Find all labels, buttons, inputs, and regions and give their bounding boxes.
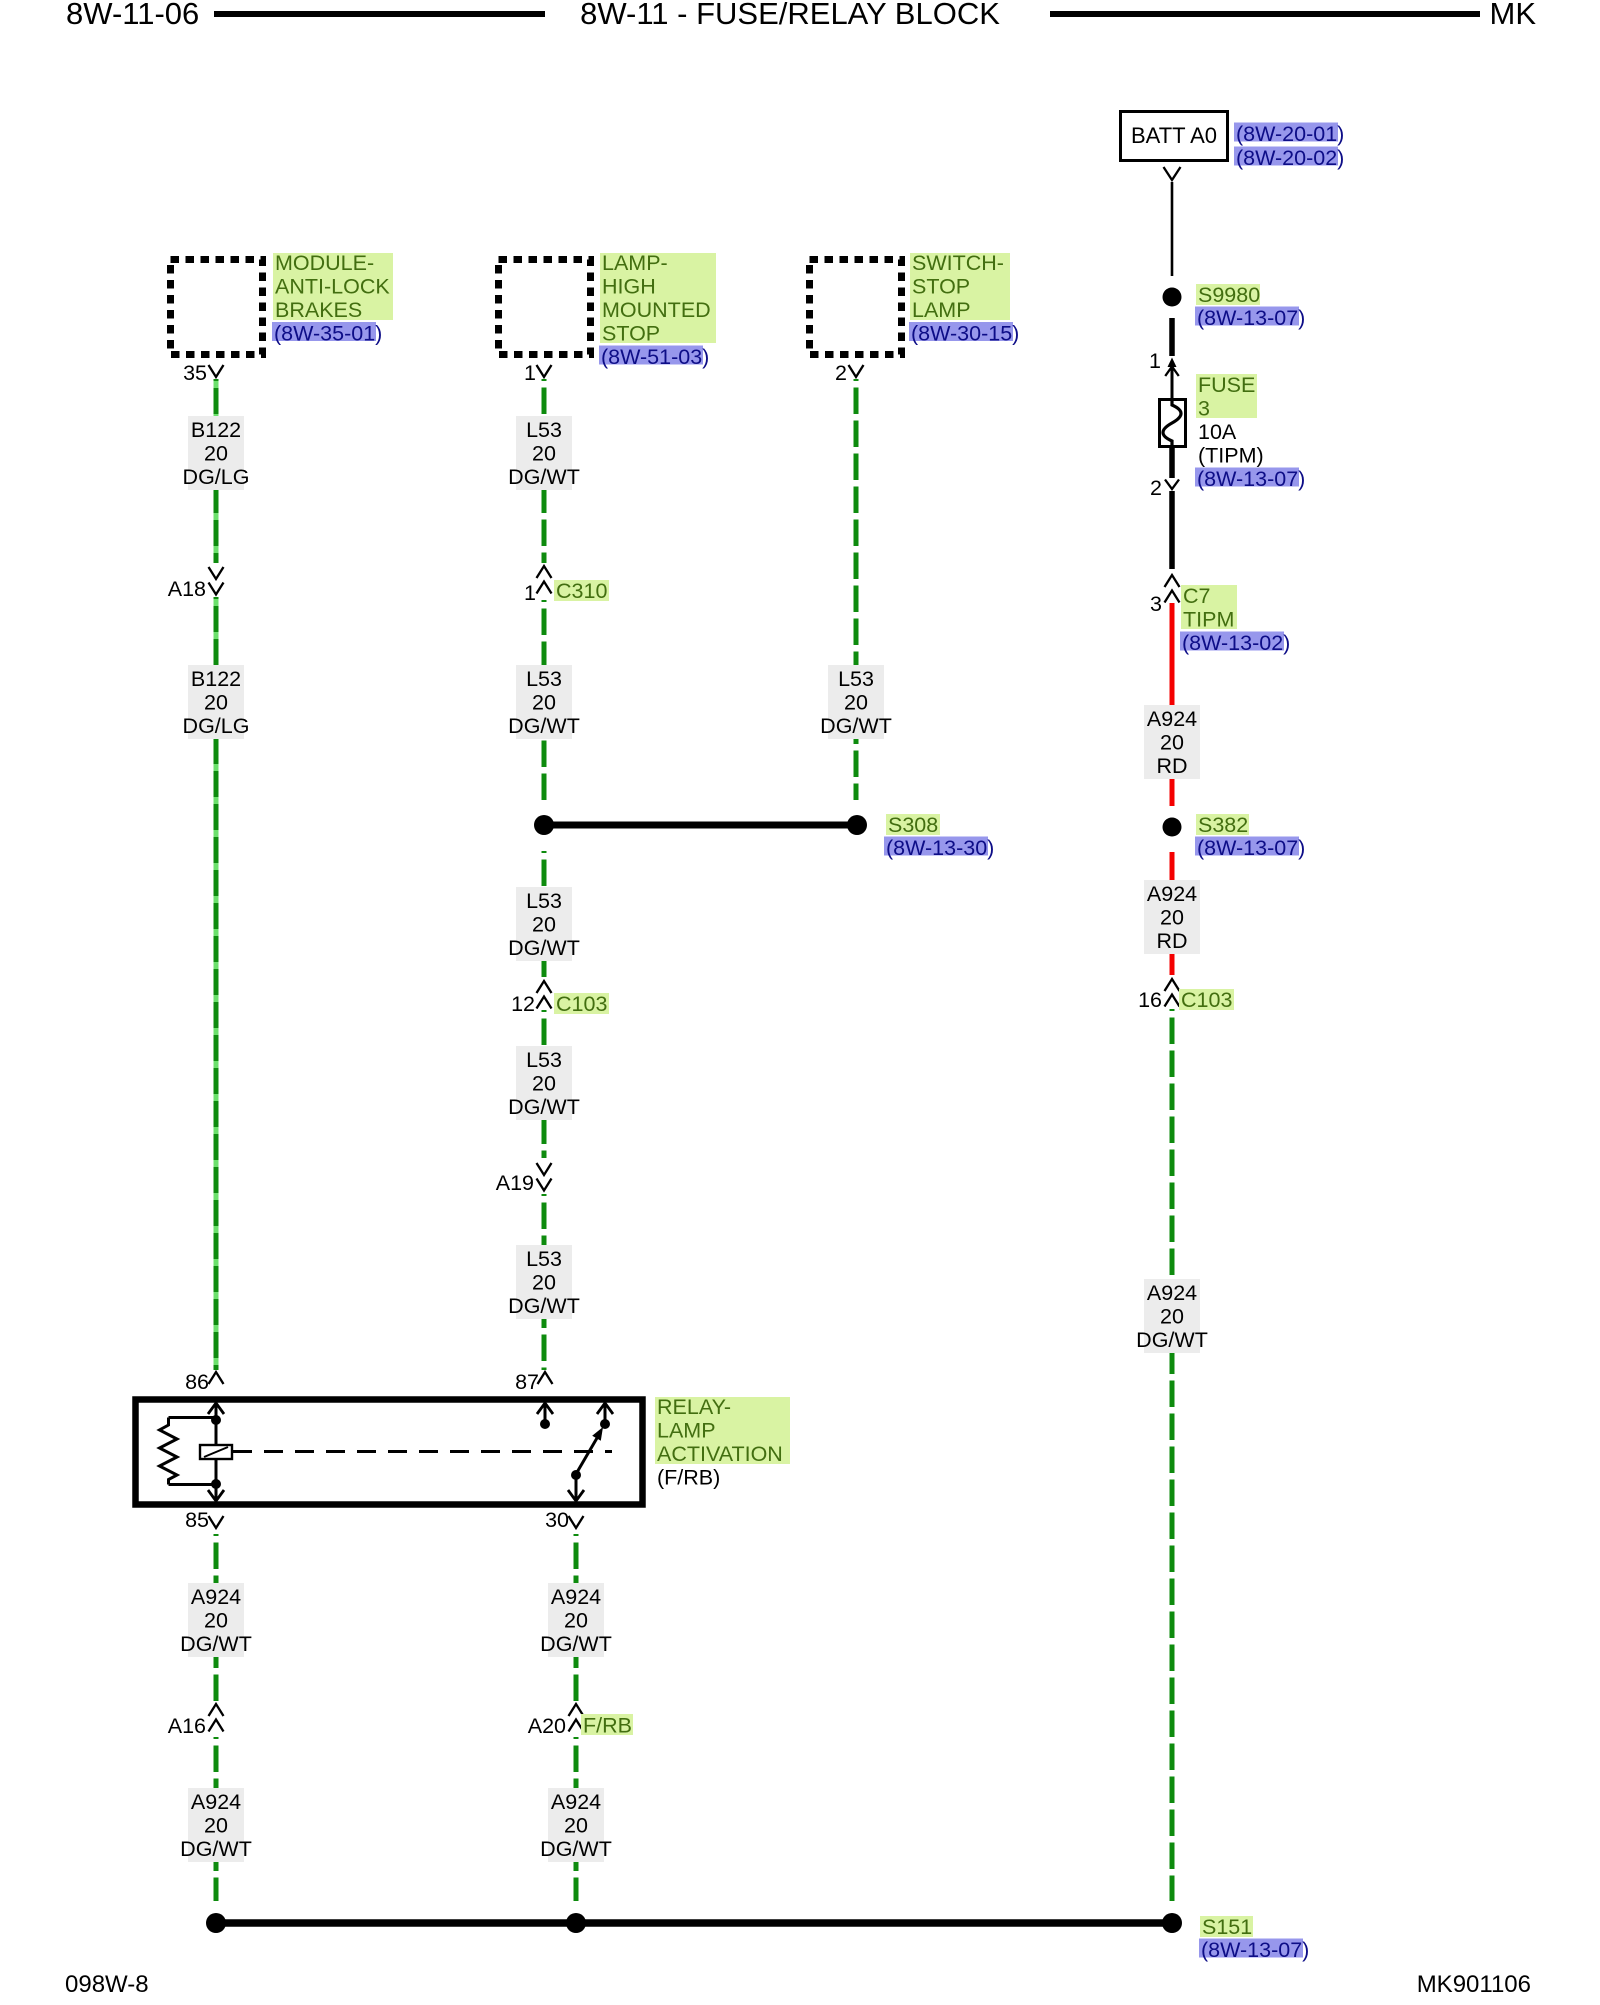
svg-text:A924: A924 bbox=[1147, 707, 1197, 731]
svg-text:30: 30 bbox=[545, 1508, 569, 1532]
svg-text:A924: A924 bbox=[551, 1585, 601, 1609]
svg-text:A924: A924 bbox=[1147, 882, 1197, 906]
svg-text:(8W-51-03): (8W-51-03) bbox=[601, 345, 709, 369]
svg-text:1: 1 bbox=[524, 361, 536, 385]
svg-text:MODULE-: MODULE- bbox=[275, 251, 374, 275]
svg-text:S151: S151 bbox=[1202, 1915, 1252, 1939]
svg-text:85: 85 bbox=[185, 1508, 209, 1532]
svg-text:S308: S308 bbox=[888, 813, 938, 837]
svg-text:20: 20 bbox=[1160, 1305, 1184, 1329]
svg-text:(8W-13-07): (8W-13-07) bbox=[1201, 1938, 1309, 1962]
svg-text:20: 20 bbox=[844, 691, 868, 715]
svg-text:SWITCH-: SWITCH- bbox=[912, 251, 1004, 275]
svg-text:DG/WT: DG/WT bbox=[820, 714, 892, 738]
svg-text:(8W-20-02): (8W-20-02) bbox=[1236, 146, 1344, 170]
svg-text:S9980: S9980 bbox=[1198, 283, 1260, 307]
svg-text:A924: A924 bbox=[191, 1585, 241, 1609]
svg-text:MOUNTED: MOUNTED bbox=[602, 298, 711, 322]
svg-text:BRAKES: BRAKES bbox=[275, 298, 362, 322]
svg-text:20: 20 bbox=[532, 442, 556, 466]
svg-text:RD: RD bbox=[1156, 929, 1187, 953]
svg-text:20: 20 bbox=[204, 1814, 228, 1838]
svg-text:A19: A19 bbox=[496, 1171, 534, 1195]
svg-text:(F/RB): (F/RB) bbox=[657, 1466, 720, 1490]
svg-text:L53: L53 bbox=[526, 667, 562, 691]
svg-text:20: 20 bbox=[532, 913, 556, 937]
svg-text:20: 20 bbox=[532, 1072, 556, 1096]
svg-text:12: 12 bbox=[511, 992, 535, 1016]
svg-text:20: 20 bbox=[564, 1814, 588, 1838]
svg-text:LAMP: LAMP bbox=[912, 298, 971, 322]
svg-text:L53: L53 bbox=[526, 1247, 562, 1271]
svg-text:A924: A924 bbox=[1147, 1281, 1197, 1305]
svg-text:F/RB: F/RB bbox=[583, 1714, 632, 1738]
svg-text:DG/WT: DG/WT bbox=[540, 1837, 612, 1861]
svg-text:BATT A0: BATT A0 bbox=[1131, 123, 1217, 148]
svg-text:C103: C103 bbox=[1181, 988, 1232, 1012]
svg-text:(TIPM): (TIPM) bbox=[1198, 444, 1264, 468]
svg-text:A924: A924 bbox=[551, 1790, 601, 1814]
svg-text:(8W-13-07): (8W-13-07) bbox=[1197, 467, 1305, 491]
svg-text:86: 86 bbox=[185, 1370, 209, 1394]
svg-text:(8W-20-01): (8W-20-01) bbox=[1236, 122, 1344, 146]
svg-text:RELAY-: RELAY- bbox=[657, 1395, 731, 1419]
svg-text:3: 3 bbox=[1198, 397, 1210, 421]
svg-text:A924: A924 bbox=[191, 1790, 241, 1814]
svg-text:RD: RD bbox=[1156, 754, 1187, 778]
svg-text:DG/WT: DG/WT bbox=[180, 1632, 252, 1656]
svg-text:3: 3 bbox=[1150, 592, 1162, 616]
svg-text:1: 1 bbox=[524, 581, 536, 605]
svg-text:C103: C103 bbox=[556, 992, 607, 1016]
svg-text:(8W-13-30): (8W-13-30) bbox=[886, 836, 994, 860]
svg-text:MK901106: MK901106 bbox=[1417, 1971, 1531, 1998]
svg-text:2: 2 bbox=[1150, 476, 1162, 500]
svg-text:B122: B122 bbox=[191, 418, 241, 442]
svg-text:2: 2 bbox=[835, 361, 847, 385]
svg-text:HIGH: HIGH bbox=[602, 275, 656, 299]
svg-text:20: 20 bbox=[1160, 731, 1184, 755]
svg-text:DG/WT: DG/WT bbox=[540, 1632, 612, 1656]
svg-text:20: 20 bbox=[204, 442, 228, 466]
svg-text:16: 16 bbox=[1138, 988, 1162, 1012]
svg-text:FUSE: FUSE bbox=[1198, 373, 1255, 397]
svg-text:DG/WT: DG/WT bbox=[1136, 1328, 1208, 1352]
svg-text:C310: C310 bbox=[556, 579, 607, 603]
svg-text:DG/WT: DG/WT bbox=[508, 936, 580, 960]
svg-text:(8W-13-07): (8W-13-07) bbox=[1197, 306, 1305, 330]
svg-text:STOP: STOP bbox=[912, 275, 970, 299]
svg-text:L53: L53 bbox=[838, 667, 874, 691]
svg-text:A16: A16 bbox=[168, 1714, 206, 1738]
svg-text:(8W-13-02): (8W-13-02) bbox=[1182, 631, 1290, 655]
svg-text:20: 20 bbox=[532, 1271, 556, 1295]
svg-text:A18: A18 bbox=[168, 577, 206, 601]
svg-text:20: 20 bbox=[204, 1609, 228, 1633]
svg-text:C7: C7 bbox=[1183, 584, 1210, 608]
svg-text:DG/WT: DG/WT bbox=[508, 1095, 580, 1119]
svg-text:DG/LG: DG/LG bbox=[183, 465, 250, 489]
svg-text:ANTI-LOCK: ANTI-LOCK bbox=[275, 275, 390, 299]
svg-text:S382: S382 bbox=[1198, 813, 1248, 837]
svg-text:A20: A20 bbox=[528, 1714, 566, 1738]
svg-text:1: 1 bbox=[1149, 349, 1161, 373]
svg-text:L53: L53 bbox=[526, 1048, 562, 1072]
svg-text:20: 20 bbox=[204, 691, 228, 715]
svg-text:B122: B122 bbox=[191, 667, 241, 691]
svg-text:DG/WT: DG/WT bbox=[508, 714, 580, 738]
svg-text:(8W-13-07): (8W-13-07) bbox=[1197, 836, 1305, 860]
svg-text:(8W-35-01): (8W-35-01) bbox=[274, 322, 382, 346]
svg-text:20: 20 bbox=[564, 1609, 588, 1633]
svg-text:35: 35 bbox=[183, 361, 207, 385]
svg-text:87: 87 bbox=[515, 1370, 539, 1394]
svg-text:8W-11-06: 8W-11-06 bbox=[66, 0, 199, 31]
svg-text:L53: L53 bbox=[526, 418, 562, 442]
svg-text:L53: L53 bbox=[526, 889, 562, 913]
svg-text:20: 20 bbox=[532, 691, 556, 715]
svg-text:LAMP-: LAMP- bbox=[602, 251, 668, 275]
svg-text:(8W-30-15): (8W-30-15) bbox=[911, 322, 1019, 346]
svg-text:098W-8: 098W-8 bbox=[65, 1971, 149, 1998]
svg-text:TIPM: TIPM bbox=[1183, 608, 1234, 632]
svg-text:DG/WT: DG/WT bbox=[180, 1837, 252, 1861]
svg-text:DG/WT: DG/WT bbox=[508, 1294, 580, 1318]
svg-text:ACTIVATION: ACTIVATION bbox=[657, 1442, 783, 1466]
svg-text:DG/WT: DG/WT bbox=[508, 465, 580, 489]
svg-text:10A: 10A bbox=[1198, 420, 1237, 444]
svg-text:LAMP: LAMP bbox=[657, 1419, 716, 1443]
svg-text:MK: MK bbox=[1490, 0, 1537, 31]
svg-text:DG/LG: DG/LG bbox=[183, 714, 250, 738]
svg-text:STOP: STOP bbox=[602, 322, 660, 346]
svg-text:8W-11 - FUSE/RELAY BLOCK: 8W-11 - FUSE/RELAY BLOCK bbox=[580, 0, 1000, 31]
svg-text:20: 20 bbox=[1160, 906, 1184, 930]
